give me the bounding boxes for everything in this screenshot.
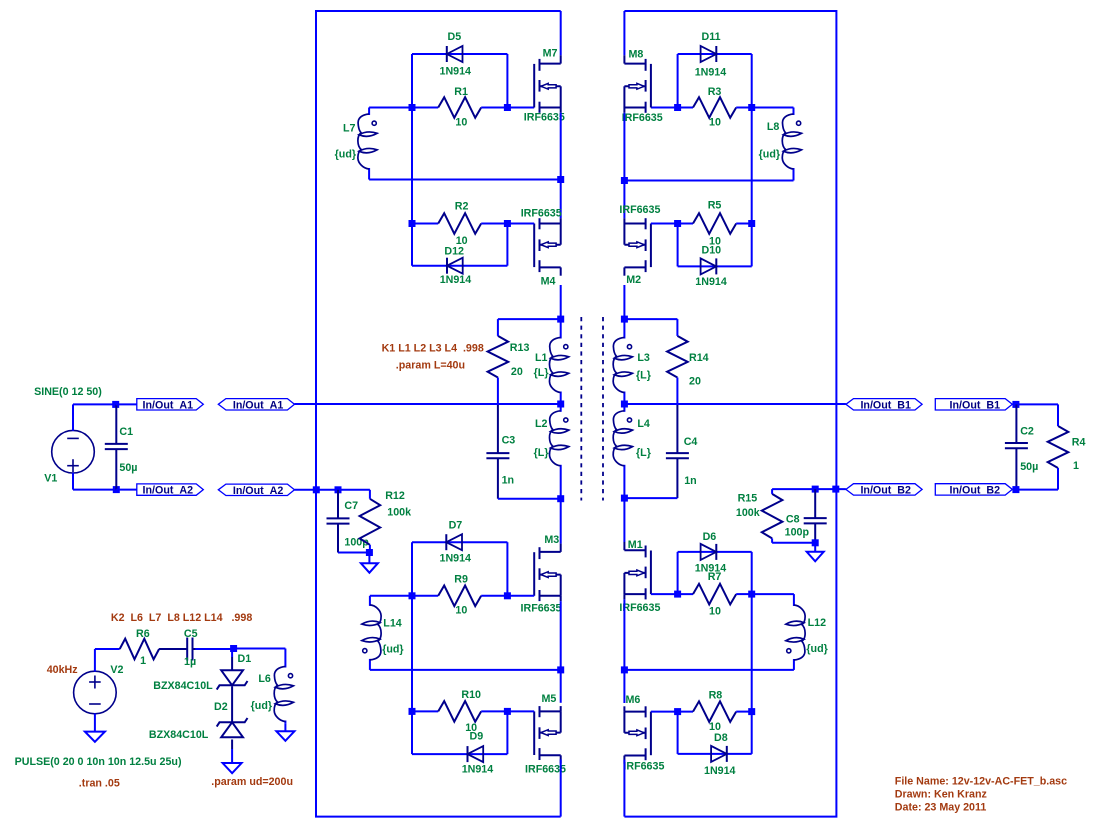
inductor L4 secondary winding {L}	[613, 404, 632, 498]
wire C3 bottom	[498, 498, 561, 500]
wire left column D11-R3	[677, 54, 679, 108]
svg-text:40kHz: 40kHz	[47, 664, 78, 676]
wire left column D6-R7	[677, 552, 679, 594]
svg-text:In/Out_A2: In/Out_A2	[143, 485, 194, 497]
svg-text:V2: V2	[110, 664, 123, 676]
svg-text:C2: C2	[1020, 426, 1034, 438]
svg-text:IRF6635: IRF6635	[623, 760, 664, 772]
MOSFET M8 IRF6635 (mirrored)	[624, 55, 651, 113]
junction output node A (M7 source / M4 drain)	[557, 176, 564, 183]
MOSFET M1 IRF6635 (mirrored)	[624, 542, 651, 600]
junction R8 right	[748, 708, 755, 715]
svg-text:IRF6635: IRF6635	[622, 112, 663, 124]
wire M6 source to box bottom	[623, 760, 625, 817]
svg-text:R13: R13	[510, 342, 530, 354]
wire In/Out_B2 row to R15	[772, 488, 846, 490]
svg-text:1N914: 1N914	[695, 276, 727, 288]
junction C7 top	[335, 486, 342, 493]
diode D5 1N914	[447, 46, 463, 62]
svg-text:IRF6635: IRF6635	[619, 204, 660, 216]
svg-text:L12: L12	[808, 617, 826, 629]
svg-text:L14: L14	[383, 618, 401, 630]
svg-text:R8: R8	[709, 689, 723, 701]
svg-text:In/Out_B2: In/Out_B2	[950, 484, 1001, 496]
wire junction to L6	[234, 648, 286, 650]
wire M3 source to junction	[560, 601, 562, 670]
wire L12 bottom to output node	[624, 669, 794, 671]
svg-text:M5: M5	[542, 693, 557, 705]
svg-text:.param ud=200u: .param ud=200u	[211, 776, 293, 788]
svg-text:V1: V1	[44, 473, 57, 485]
wire M1 source to junction	[623, 599, 625, 670]
svg-text:1N914: 1N914	[462, 763, 494, 775]
wire R3 to L8 top	[752, 107, 794, 109]
resistor R3	[693, 97, 736, 118]
svg-text:20: 20	[689, 376, 701, 388]
resistor R12 100k	[360, 499, 381, 545]
junction C5/D1/L6	[230, 645, 237, 652]
svg-text:IRF6635: IRF6635	[521, 603, 562, 615]
svg-text:{L}: {L}	[636, 370, 651, 382]
net flag In/Out_A2 (bridge side)	[218, 484, 294, 495]
junction In/Out_B2 load node	[1012, 486, 1019, 493]
svg-text:50µ: 50µ	[119, 462, 137, 474]
svg-text:In/Out_B2: In/Out_B2	[860, 484, 911, 496]
svg-text:1N914: 1N914	[695, 66, 727, 78]
svg-text:IRF6635: IRF6635	[619, 602, 660, 614]
diode D12 1N914	[447, 258, 463, 274]
inductor L3 secondary winding {L}	[613, 319, 632, 404]
svg-text:R1: R1	[454, 86, 468, 98]
ground below D2	[223, 763, 242, 773]
wire D12 row	[412, 265, 507, 267]
svg-text:{ud}: {ud}	[335, 149, 356, 161]
wire In/Out_A1 to transformer mid	[295, 403, 561, 405]
svg-text:10: 10	[455, 604, 467, 616]
svg-text:IRF6635: IRF6635	[521, 208, 562, 220]
wire R1 to M7 gate	[481, 107, 534, 109]
svg-text:1: 1	[140, 655, 146, 667]
svg-text:R3: R3	[708, 86, 722, 98]
svg-text:L1: L1	[535, 352, 548, 364]
svg-text:BZX84C10L: BZX84C10L	[149, 729, 209, 741]
wire left gate column (D5 to D12)	[411, 54, 413, 266]
net flag In/Out_B2 (bridge side)	[846, 484, 922, 495]
ground below C8	[807, 552, 824, 562]
junction output node (M3 source / M5 drain)	[557, 666, 564, 673]
MOSFET M6 IRF6635 (mirrored, flipped)	[624, 706, 651, 764]
wire right column D5-R1	[506, 54, 508, 108]
svg-text:D1: D1	[238, 653, 252, 665]
svg-text:.tran .05: .tran .05	[79, 778, 120, 790]
wire M4 drain to transformer top	[560, 285, 562, 319]
svg-text:10: 10	[709, 117, 721, 129]
wire M7 source to M4 column	[560, 113, 562, 218]
wire right gate column (D11 to D10)	[751, 54, 753, 266]
svg-text:R7: R7	[708, 571, 722, 583]
svg-text:L6: L6	[258, 673, 271, 685]
svg-text:R12: R12	[385, 490, 405, 502]
svg-text:R6: R6	[136, 628, 150, 640]
svg-text:D10: D10	[702, 245, 722, 257]
wire R9 to M3 gate	[481, 595, 534, 597]
junction R3 left	[674, 104, 681, 111]
junction transformer top left	[557, 316, 564, 323]
junction R5 left	[674, 220, 681, 227]
svg-text:1N914: 1N914	[704, 765, 736, 777]
svg-text:{L}: {L}	[534, 367, 549, 379]
svg-text:IRF6635: IRF6635	[524, 111, 565, 123]
ground below V2	[85, 732, 105, 742]
svg-text:In/Out_A1: In/Out_A1	[143, 399, 194, 411]
svg-text:{ud}: {ud}	[806, 643, 827, 655]
wire to ground stub	[368, 553, 370, 564]
wire top rail to M7 drain	[560, 11, 562, 55]
wire right gate column (D6 to D8)	[751, 552, 753, 754]
junction In/Out_B1 load node	[1012, 401, 1019, 408]
wire C1 to In/Out_A1 flag	[116, 403, 137, 405]
junction R3 right	[748, 104, 755, 111]
svg-text:1N914: 1N914	[440, 274, 472, 286]
wire R5 right	[736, 223, 752, 225]
coupling dashed line 2	[602, 317, 604, 501]
junction In/Out_B2 at box edge	[832, 486, 839, 493]
capacitor C3 1n	[486, 404, 509, 499]
junction V1-C1 bottom	[113, 486, 120, 493]
junction transformer mid left	[557, 401, 564, 408]
svg-text:L3: L3	[637, 352, 650, 364]
svg-text:M7: M7	[543, 48, 558, 60]
svg-text:D11: D11	[702, 31, 721, 43]
wire junction to M5 drain	[560, 670, 562, 703]
wire R7 to L12 top	[752, 593, 794, 595]
wire M8 gate to R3	[651, 107, 693, 109]
wire M8 source to M2 column	[623, 113, 625, 218]
wire D7 row	[412, 541, 507, 543]
net flag In/Out_B2 (load side)	[935, 484, 1012, 495]
ground below L6	[276, 731, 294, 741]
svg-text:C4: C4	[684, 436, 698, 448]
svg-text:File Name: 12v-12v-AC-FET_b.as: File Name: 12v-12v-AC-FET_b.asc	[895, 776, 1067, 788]
svg-text:100k: 100k	[736, 507, 760, 519]
wire L7 top	[369, 107, 412, 109]
svg-text:M8: M8	[629, 49, 644, 61]
resistor R10	[438, 701, 481, 722]
net flag In/Out_B1 (bridge side)	[846, 399, 922, 410]
junction In/Out_A2 at box edge	[313, 486, 320, 493]
wire D6 row	[678, 551, 752, 553]
junction R2 left	[409, 220, 416, 227]
svg-text:L8: L8	[767, 121, 780, 133]
right bridge rail loop (top/right/bottom wires)	[624, 11, 836, 817]
inductor L12 gate-drive winding	[786, 594, 805, 670]
wire transformer mid to In/Out_B1 flag	[624, 403, 846, 405]
junction R2 right	[504, 220, 511, 227]
wire junction to M6 drain	[623, 670, 625, 703]
diode D7 1N914	[446, 534, 462, 550]
svg-text:R5: R5	[708, 200, 722, 212]
resistor R8	[693, 701, 736, 722]
junction R7 left	[674, 591, 681, 598]
capacitor C7 100p	[327, 490, 350, 553]
svg-text:20: 20	[511, 366, 523, 378]
resistor R2	[438, 213, 481, 234]
wire C1 to In/Out_A2 flag	[116, 489, 137, 491]
coupling dashed line 1	[580, 317, 582, 501]
MOSFET M7 IRF6635	[534, 55, 561, 113]
svg-text:D9: D9	[470, 730, 484, 742]
wire R1 row left	[412, 107, 438, 109]
wire M5 source to box bottom	[560, 759, 562, 816]
junction R5 right	[748, 220, 755, 227]
inductor L6 drive winding	[284, 649, 286, 653]
svg-text:In/Out_A2: In/Out_A2	[233, 485, 284, 497]
svg-text:{L}: {L}	[636, 447, 651, 459]
svg-text:D7: D7	[449, 520, 463, 532]
wire L14 bottom to output node	[370, 669, 561, 671]
left bridge rail loop (top/left/bottom wires)	[316, 11, 561, 817]
wire C4 bottom	[624, 497, 677, 499]
voltage source V2 PULSE	[74, 671, 117, 714]
svg-text:1N914: 1N914	[440, 553, 472, 565]
svg-text:L2: L2	[535, 418, 548, 430]
wire to ground stub	[814, 543, 816, 552]
wire L14 top	[370, 595, 412, 597]
wire D2 to ground	[231, 740, 233, 750]
wire left column R8-D8	[677, 712, 679, 754]
wire V2 bottom to ground	[94, 714, 96, 732]
capacitor C2 50u	[1005, 404, 1028, 489]
svg-text:100p: 100p	[785, 527, 810, 539]
resistor R14 20	[667, 336, 688, 378]
wire D11 row	[678, 53, 752, 55]
wire L8 bottom to output node	[624, 180, 793, 182]
resistor R9	[438, 586, 481, 607]
resistor R5	[693, 213, 736, 234]
svg-text:R4: R4	[1072, 437, 1086, 449]
junction V1-C1 top	[112, 401, 119, 408]
wire R3 right	[736, 107, 752, 109]
wire D8 row	[678, 753, 752, 755]
junction R10 left	[409, 708, 416, 715]
svg-text:D8: D8	[714, 732, 728, 744]
svg-text:D6: D6	[703, 531, 717, 543]
junction R9 right	[504, 592, 511, 599]
MOSFET M2 IRF6635 (mirrored, flipped)	[624, 218, 651, 276]
wire R14 top	[624, 318, 677, 320]
junction C8 bottom	[812, 539, 819, 546]
svg-text:{L}: {L}	[534, 447, 549, 459]
svg-text:M1: M1	[628, 539, 643, 551]
svg-text:M2: M2	[626, 274, 641, 286]
wire R9 row left	[412, 595, 438, 597]
svg-text:1n: 1n	[684, 475, 696, 487]
svg-text:SINE(0 12 50): SINE(0 12 50)	[34, 386, 102, 398]
diode D11 1N914	[701, 46, 717, 62]
junction R1 right	[504, 104, 511, 111]
wire L7 bottom to output node	[369, 179, 561, 181]
svg-text:D5: D5	[448, 31, 462, 43]
junction R7 right	[748, 591, 755, 598]
inductor L8 gate-drive winding	[782, 108, 801, 180]
capacitor C1 50u	[105, 404, 128, 489]
svg-text:M4: M4	[541, 275, 556, 287]
svg-text:{ud}: {ud}	[759, 149, 780, 161]
wire M6 gate to R8	[651, 711, 693, 713]
diode D9 1N914	[468, 746, 484, 762]
svg-text:{ud}: {ud}	[382, 643, 403, 655]
wire L6 to ground	[284, 723, 286, 731]
svg-text:1µ: 1µ	[184, 656, 196, 668]
capacitor C8 100p	[804, 489, 827, 543]
zener diode D2 BZX84C10L (flipped)	[231, 686, 233, 722]
inductor L2 primary winding {L}	[549, 404, 568, 499]
wire R2 row left	[412, 223, 438, 225]
wire B1 node to R4	[1016, 403, 1058, 405]
svg-text:C3: C3	[502, 435, 516, 447]
wire M2 gate to R5	[651, 223, 693, 225]
svg-text:10: 10	[455, 117, 467, 129]
svg-text:100k: 100k	[387, 507, 411, 519]
svg-text:.param L=40u: .param L=40u	[396, 360, 465, 372]
junction R8 left	[674, 708, 681, 715]
svg-text:PULSE(0 20 0 10n 10n 12.5u 25u: PULSE(0 20 0 10n 10n 12.5u 25u)	[15, 756, 182, 768]
wire transformer bottom to M1 drain	[623, 498, 625, 542]
wire R10 to M5 gate	[481, 710, 534, 712]
MOSFET M3 IRF6635	[534, 544, 561, 602]
wire V2 top	[94, 649, 96, 672]
net flag In/Out_A1 (bridge side)	[218, 399, 294, 410]
svg-text:R14: R14	[689, 352, 709, 364]
capacitor C5 1u	[159, 638, 234, 661]
wire left column R5-D10	[677, 224, 679, 267]
capacitor C4 1n	[666, 404, 689, 498]
wire M1 gate to R7	[651, 593, 693, 595]
svg-text:C1: C1	[119, 426, 133, 438]
svg-text:Drawn: Ken Kranz: Drawn: Ken Kranz	[895, 788, 987, 800]
junction transformer bottom right	[621, 495, 628, 502]
wire right column D7-R9	[506, 542, 508, 596]
net flag In/Out_A2 (source side)	[137, 484, 204, 495]
wire R8 right	[736, 711, 752, 713]
wire R7 right	[736, 593, 752, 595]
junction R10 right	[504, 708, 511, 715]
svg-text:C7: C7	[344, 500, 358, 512]
wire M2 drain to transformer top	[623, 285, 625, 319]
svg-text:C8: C8	[786, 514, 800, 526]
wire D9 row	[412, 753, 507, 755]
resistor R13 20	[488, 336, 509, 378]
wire R2 to M4 gate	[481, 223, 534, 225]
resistor R1	[438, 97, 481, 118]
diode D10 1N914	[701, 258, 717, 274]
svg-text:C5: C5	[184, 628, 198, 640]
svg-text:In/Out_B1: In/Out_B1	[860, 399, 911, 411]
MOSFET M4 IRF6635 (flipped)	[534, 218, 561, 276]
svg-text:L7: L7	[343, 123, 356, 135]
net flag In/Out_B1 (load side)	[935, 399, 1012, 410]
svg-text:R15: R15	[738, 492, 758, 504]
svg-text:In/Out_B1: In/Out_B1	[950, 399, 1001, 411]
svg-text:1: 1	[1073, 460, 1079, 472]
inductor L1 primary winding {L}	[549, 319, 568, 404]
svg-text:In/Out_A1: In/Out_A1	[233, 399, 284, 411]
junction R1 left	[409, 104, 416, 111]
junction output node B (M8 source / M2 drain)	[621, 177, 628, 184]
svg-text:M3: M3	[544, 534, 559, 546]
svg-text:K2 L6 L7 L8 L12 L14 .998: K2 L6 L7 L8 L12 L14 .998	[111, 612, 252, 624]
wire V1 top	[72, 404, 74, 430]
svg-text:K1 L1 L2 L3 L4 .998: K1 L1 L2 L3 L4 .998	[382, 343, 484, 355]
net flag In/Out_A1 (source side)	[137, 399, 204, 410]
wire R13 top	[498, 318, 561, 320]
wire R4 bottom to B2 node	[1016, 489, 1058, 491]
diode D8 1N914	[711, 746, 727, 762]
wire right column R2-D12	[506, 224, 508, 266]
svg-text:Date: 23 May 2011: Date: 23 May 2011	[895, 802, 987, 814]
svg-text:BZX84C10L: BZX84C10L	[153, 680, 213, 692]
wire C7-R12 bottom	[338, 552, 370, 554]
junction transformer bottom left	[557, 495, 564, 502]
wire In/Out_A2 row to R12	[295, 489, 370, 491]
junction R9 left	[409, 592, 416, 599]
svg-text:L4: L4	[637, 418, 650, 430]
ground below R12	[361, 563, 378, 573]
svg-text:50µ: 50µ	[1020, 461, 1038, 473]
svg-text:R2: R2	[455, 200, 469, 212]
wire C5 to D1 junction	[195, 648, 233, 650]
svg-text:10: 10	[709, 606, 721, 618]
junction C8 top	[812, 486, 819, 493]
svg-text:1n: 1n	[502, 475, 514, 487]
svg-text:R10: R10	[461, 689, 481, 701]
svg-text:D2: D2	[214, 701, 228, 713]
svg-text:{ud}: {ud}	[251, 700, 272, 712]
svg-text:R9: R9	[454, 574, 468, 586]
junction output node (M1 source / M6 drain)	[621, 666, 628, 673]
wire left gate column (D7 to D9)	[411, 542, 413, 754]
wire right column R10-D9	[506, 711, 508, 754]
junction transformer top right	[621, 316, 628, 323]
resistor R15 100k	[762, 494, 783, 539]
resistor R6 1	[120, 639, 159, 660]
wire D5 row	[412, 53, 507, 55]
zener diode D1 BZX84C10L	[231, 649, 233, 658]
resistor R4 1	[1048, 426, 1069, 468]
wire transformer bottom to M3 drain	[560, 499, 562, 544]
voltage source V1 SINE	[52, 430, 95, 473]
wire R10 row left	[412, 710, 438, 712]
resistor R7	[693, 584, 736, 605]
svg-text:D12: D12	[444, 246, 464, 258]
wire R6 to C5	[159, 648, 182, 650]
junction transformer mid right	[621, 401, 628, 408]
svg-text:M6: M6	[626, 694, 641, 706]
wire top rail to M8 drain	[623, 11, 625, 55]
svg-text:1N914: 1N914	[440, 66, 472, 78]
junction R12 bottom	[366, 549, 373, 556]
diode D6 1N914	[701, 544, 717, 560]
MOSFET M5 IRF6635 (flipped)	[534, 706, 561, 764]
wire R15-C8 bottom	[772, 542, 815, 544]
wire V1 bottom	[72, 473, 74, 490]
wire D10 row	[678, 265, 752, 267]
